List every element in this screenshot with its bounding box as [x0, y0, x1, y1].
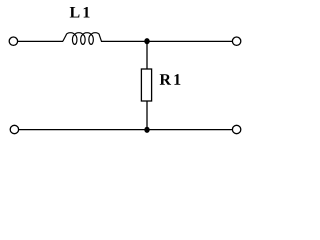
label R1 — [160, 74, 181, 85]
label L1 — [70, 7, 90, 18]
wire top-left (input terminal to inductor) — [18, 40, 63, 42]
wire top-right (inductor to output terminal) — [101, 40, 232, 42]
resistor R1 — [141, 69, 151, 101]
node junction top — [144, 38, 149, 44]
terminal bottom-right — [232, 125, 240, 133]
terminal bottom-left — [10, 125, 18, 133]
inductor L1 — [63, 33, 102, 45]
terminal top-left — [9, 37, 17, 45]
node junction bottom — [144, 127, 149, 133]
terminal top-right — [232, 37, 240, 45]
wire bottom rail — [19, 129, 233, 131]
wire resistor top — [146, 41, 148, 69]
wire resistor bottom — [146, 101, 148, 130]
